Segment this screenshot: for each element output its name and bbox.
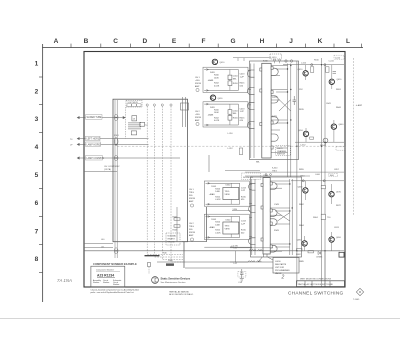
svg-text:(1X PA): (1X PA) [104, 168, 111, 171]
wire: left atten [77, 137, 148, 139]
driver sub-block 3 (lower half) [204, 181, 249, 206]
svg-text:FROM: FROM [195, 83, 201, 85]
left bus vertical wire pair inside inner box [115, 100, 117, 258]
svg-text:C-652: C-652 [300, 145, 306, 147]
dashed drop from label box [125, 107, 127, 139]
dashed box: remote switch [166, 233, 180, 245]
svg-text:C: C [113, 38, 118, 45]
armature notches upper left [260, 68, 262, 126]
resistor R490 on wire [166, 264, 174, 266]
label column left [208, 75, 220, 88]
bus connector oval row 4 [114, 248, 118, 254]
svg-text:Component Number: Component Number [96, 269, 114, 272]
svg-text:F: F [202, 38, 206, 45]
svg-text:PROGRAMMED: PROGRAMMED [275, 269, 290, 272]
long wire row 8 across [84, 250, 340, 252]
svg-text:K-340: K-340 [272, 168, 278, 170]
block to relay feed wires lower [250, 181, 290, 251]
vertical drop bus right of inner box [183, 242, 185, 268]
svg-text:L-310: L-310 [228, 133, 234, 135]
right contact 1 [271, 68, 278, 75]
transistor Q610 [303, 71, 308, 76]
svg-text:1: 1 [35, 61, 39, 68]
svg-text:C-611: C-611 [329, 61, 335, 63]
ruler: left vertical line [42, 44, 44, 302]
svg-text:Number: Number [93, 282, 100, 284]
transistor Q620 [329, 79, 334, 84]
svg-text:CH 1 VOLTS/DIV: CH 1 VOLTS/DIV [104, 166, 120, 168]
cluster 2: transistor Q650 [303, 131, 308, 136]
dark component bottom right [339, 252, 344, 257]
svg-text:SW 240: SW 240 [168, 242, 176, 244]
left contact 1 [247, 70, 254, 77]
wire between lower blocks [232, 210, 250, 212]
input label stack (bot a) [189, 189, 195, 203]
dashed external wire right of box [352, 58, 354, 215]
svg-text:J-410: J-410 [272, 57, 278, 59]
svg-text:L-610: L-610 [301, 63, 307, 65]
strip box dividers [305, 281, 330, 287]
value label noise assemblies [256, 61, 280, 233]
inner logic box [113, 99, 188, 242]
svg-text:8: 8 [35, 256, 39, 263]
svg-text:B: B [84, 38, 89, 45]
inductor coils on wire B [248, 261, 261, 262]
svg-text:6: 6 [35, 200, 39, 207]
crossover wires [278, 213, 290, 221]
labels mid [233, 76, 239, 85]
long vertical wire J column [296, 61, 298, 285]
resistor mid G3 [321, 185, 325, 188]
resistor R314 vertical [239, 148, 242, 155]
svg-text:4: 4 [35, 144, 39, 151]
svg-text:LEFT HORIZ: LEFT HORIZ [87, 139, 101, 141]
resistor connecting wire [229, 70, 231, 91]
wire: slider tube [77, 116, 125, 118]
attenuator box 1X [132, 116, 137, 121]
wire mid row b [245, 175, 310, 177]
svg-text:L-312: L-312 [228, 148, 234, 150]
assembly inner label [276, 146, 291, 156]
armature rect [262, 63, 271, 158]
svg-text:J-610: J-610 [335, 57, 341, 59]
long vertical wire K2 [324, 65, 326, 287]
svg-text:AMP: AMP [195, 119, 200, 122]
cluster 3: transistor Q660 [303, 188, 308, 193]
svg-text:1-2P: 1-2P [240, 76, 245, 78]
bus connector oval row 2 [114, 138, 118, 146]
svg-text:SIG: SIG [189, 229, 193, 231]
svg-text:SEE PARTS: SEE PARTS [275, 263, 287, 266]
left contact 3 [249, 238, 256, 245]
svg-text:LAMP COMMON: LAMP COMMON [87, 157, 105, 160]
right contact 1 [270, 183, 277, 190]
pin circles on top right wire [311, 64, 313, 66]
static sensitive logo circle [152, 277, 159, 284]
svg-text:H: H [260, 38, 265, 45]
input label stack (top b) [195, 111, 201, 122]
svg-text:NORM INV: NORM INV [243, 177, 254, 179]
svg-text:3: 3 [35, 116, 39, 123]
wire under text cluster [84, 171, 117, 173]
armature rect [263, 178, 270, 254]
svg-text:2: 2 [281, 275, 285, 281]
circled ref c [190, 204, 193, 207]
left contact 4 [247, 122, 254, 129]
wire stub row 8 b [84, 243, 113, 245]
svg-text:FROM: FROM [189, 198, 195, 200]
resistor vertical a [228, 75, 232, 80]
resistor R613 vertical [326, 67, 329, 73]
svg-text:AMP: AMP [189, 200, 194, 203]
right contact 3 [271, 117, 278, 124]
label J-610 dashed [334, 55, 344, 59]
svg-text:E: E [172, 38, 177, 45]
svg-text:2: 2 [35, 89, 39, 96]
row tick marks [39, 77, 43, 273]
input label stack (bot b) [189, 223, 195, 237]
right contact 3 [270, 219, 277, 226]
svg-text:L: L [346, 38, 350, 45]
U-490 parts list box [273, 258, 299, 274]
svg-text:+LAMP: +LAMP [356, 104, 363, 107]
vertical wire joining R245/R246 [176, 207, 178, 242]
svg-text:T-1065: T-1065 [353, 299, 360, 301]
wire B left extension [230, 261, 248, 263]
wire mid row c [245, 171, 344, 173]
vertical resistor R668 [321, 214, 325, 220]
svg-text:COMPONENT NUMBER EXAMPLE: COMPONENT NUMBER EXAMPLE [93, 262, 137, 266]
svg-text:TRIG: TRIG [225, 226, 230, 228]
svg-text:Static Sensitive Devices: Static Sensitive Devices [161, 277, 191, 281]
component cluster above long wire: remote resistors [174, 218, 180, 220]
cluster3 wires [305, 181, 331, 204]
svg-text:SIG: SIG [189, 195, 193, 197]
svg-text:D: D [142, 38, 147, 45]
cluster2 wires [306, 120, 334, 146]
bottom right partial board strip [297, 281, 345, 287]
vertical link 235 [235, 251, 237, 262]
wire row mid3 [291, 180, 344, 182]
svg-text:PARTIAL A5 VERT MODE SWITCH BD: PARTIAL A5 VERT MODE SWITCH BD [298, 283, 334, 286]
right contact 4 [270, 245, 277, 252]
component number example box [91, 266, 125, 287]
svg-text:J: J [289, 38, 293, 45]
circled ref a [196, 88, 199, 91]
vertical wire right [237, 70, 239, 91]
bus connector oval row 3 [114, 155, 118, 160]
J-410 connector label [270, 54, 282, 59]
transistor Q670 [329, 192, 334, 197]
row numbers 1-8 [35, 61, 39, 264]
ruler: top horizontal line [42, 47, 363, 49]
svg-text:K: K [318, 38, 323, 45]
svg-text:TRIG: TRIG [189, 192, 194, 194]
bus connector oval at slider tube wire [114, 114, 118, 120]
small resistor bottom left [148, 263, 151, 267]
svg-text:AMP: AMP [189, 234, 194, 237]
decoupling dashed box [238, 272, 246, 278]
svg-text:TRIG: TRIG [225, 191, 230, 193]
svg-text:CR686: CR686 [316, 257, 323, 259]
group1 wires [306, 65, 332, 89]
dashed label right [336, 147, 345, 150]
inner bottom wire with arrow [204, 90, 238, 92]
mid horizontal dashed interconnect [117, 145, 344, 147]
connector bus mid column [183, 97, 186, 127]
top right feed wire [283, 64, 344, 66]
svg-text:U-490: U-490 [275, 261, 281, 263]
resistor R684 [308, 251, 314, 253]
value label noise right column [299, 89, 342, 263]
armature notches lower right [270, 182, 272, 248]
cluster4 wires [296, 232, 344, 287]
inner top wire with arrow [204, 69, 238, 71]
coil wire b [254, 179, 256, 255]
svg-text:U-470: U-470 [277, 148, 283, 150]
cap C613 [333, 72, 336, 74]
wire mid row a [225, 170, 260, 172]
label box cells [127, 104, 141, 107]
circled ref b [196, 122, 199, 125]
svg-text:LIST FOR: LIST FOR [275, 267, 285, 269]
svg-text:prefix—see end of Replaceable: prefix—see end of Replaceable Electrical… [91, 291, 135, 294]
right contact 2 [271, 96, 278, 103]
inductor coils on long wire [249, 250, 262, 251]
armature notches upper right [271, 67, 273, 150]
svg-text:7A 1NA: 7A 1NA [57, 278, 72, 283]
svg-text:+SIG: +SIG [195, 114, 200, 116]
svg-text:INVERT: INVERT [168, 239, 176, 241]
svg-text:7: 7 [35, 229, 39, 236]
resistor R611 vertical [310, 67, 313, 73]
cap C40 [240, 269, 244, 278]
trimmer cap [140, 122, 145, 126]
svg-text:+SIG: +SIG [195, 80, 200, 82]
labels right [240, 74, 246, 88]
svg-text:See Maintenance Section: See Maintenance Section [161, 281, 187, 284]
svg-text:140K: 140K [214, 77, 219, 79]
assembly outline [250, 61, 299, 160]
label: SLIDER TUBE [86, 115, 103, 120]
label: LAMP HORIZ [86, 142, 101, 146]
resistor R246 [174, 225, 180, 227]
crossover wires [279, 100, 291, 112]
IC box U340 inside block 4 [223, 222, 239, 234]
dashed sense verticals from switch [147, 106, 183, 262]
column tick marks [71, 44, 362, 48]
second supply wire right half [230, 247, 273, 249]
svg-text:A: A [54, 38, 59, 45]
J-410 pins [274, 59, 276, 61]
output bus pair [287, 64, 289, 178]
assembly outline [251, 177, 302, 257]
svg-text:5: 5 [35, 172, 39, 179]
output bus pair [289, 179, 291, 255]
transistor Q640 [331, 124, 336, 129]
transistor Q430 [210, 95, 215, 100]
svg-text:4.02K: 4.02K [214, 85, 220, 87]
pins on wire G3 [302, 180, 304, 182]
wire: lamp horiz [77, 143, 148, 145]
pin circle j2 [290, 60, 292, 62]
svg-text:+BIAS: +BIAS [208, 79, 214, 82]
emitter follower partial [323, 138, 328, 143]
sub-block outline [203, 67, 248, 92]
main schematic outline box [84, 52, 345, 288]
vertical wire below sub-blocks [208, 155, 210, 172]
block to relay feed wires upper [248, 66, 288, 153]
dashes below resistor [148, 267, 150, 274]
svg-text:AMP: AMP [195, 85, 200, 88]
transistor Q690 [329, 237, 334, 242]
inner box bottom-right extension corner [182, 207, 206, 242]
left contact 2 [247, 87, 254, 94]
svg-text:FROM: FROM [195, 117, 201, 119]
svg-text:VIEW: VIEW [225, 194, 230, 196]
column letters A-L [54, 38, 350, 45]
pin circle j1 [285, 60, 287, 62]
svg-text:PARTIAL A5 MAIN BD: PARTIAL A5 MAIN BD [169, 290, 189, 293]
svg-text:VERT MODE SW CONNECTIONS: VERT MODE SW CONNECTIONS [300, 279, 332, 281]
wire row under cluster2 [295, 141, 344, 143]
wire to U490 a [157, 261, 273, 263]
dashed label box: switching control [126, 100, 142, 107]
input label stack ch1 col (top a) [195, 77, 201, 88]
svg-text:Number: Number [103, 282, 110, 284]
small pins lower assembly top [265, 174, 267, 176]
svg-text:NORMAL: NORMAL [168, 235, 177, 238]
armature notches lower left [261, 184, 263, 242]
lower assembly drop wires [258, 254, 273, 262]
svg-text:ALSO SHOWN ON DIAG 1: ALSO SHOWN ON DIAG 1 [169, 293, 194, 296]
resistor R682 [297, 249, 303, 251]
svg-text:G: G [230, 38, 235, 45]
right contact 4 [271, 134, 278, 141]
wire: lamp common [77, 157, 180, 159]
IC box U330 inside block 3 [223, 188, 239, 200]
label: LEFT ATTEN [86, 136, 101, 140]
driver sub-block 2 [203, 102, 248, 127]
left contact 3 [247, 102, 254, 109]
wire stub row 8 c [84, 247, 113, 249]
long vertical wire K column [321, 58, 323, 287]
switch contact stack [128, 123, 141, 129]
cap C470 between buses [293, 96, 297, 105]
resistor vertical b [228, 81, 232, 86]
driver sub-block 4 [204, 214, 249, 239]
svg-text:CHANNEL SWITCHING: CHANNEL SWITCHING [288, 290, 344, 295]
label: LAMP COMMON [86, 156, 103, 160]
svg-text:LAMP HORIZ: LAMP HORIZ [87, 143, 102, 146]
heavy shield bar [145, 255, 160, 257]
dashed vertical top pin circles [146, 104, 172, 106]
svg-text:FROM: FROM [189, 232, 195, 234]
ground symbol [240, 279, 244, 282]
diode CR686 [318, 252, 321, 255]
coil wire a [251, 179, 253, 255]
svg-text:VIEW: VIEW [225, 229, 230, 231]
coil wire b [253, 64, 255, 159]
resistor block lower [131, 131, 136, 135]
right contact 2 [270, 210, 277, 217]
svg-text:SWITCH: SWITCH [277, 154, 285, 156]
example box footnote [91, 289, 140, 295]
svg-text:A23 R1234: A23 R1234 [97, 274, 114, 278]
top feed wire [233, 58, 271, 61]
left contact 2 [249, 206, 256, 213]
connector box on mid bus [181, 103, 189, 110]
transistor Q410 top [212, 59, 217, 64]
svg-text:TRIG: TRIG [189, 226, 194, 228]
left contact 1 [249, 183, 256, 190]
sheet diamond [356, 288, 363, 295]
circled ref d [190, 238, 193, 241]
lower assembly dashed label [242, 173, 261, 180]
svg-text:Number: Number [113, 284, 120, 286]
wire to U490 b [185, 267, 273, 269]
resistor R652 [310, 137, 314, 139]
wire below block 4 [204, 246, 252, 248]
scan page bottom edge line [0, 318, 400, 320]
cluster 4: transistor Q680 [302, 241, 307, 246]
coil wire a [250, 64, 252, 159]
svg-text:SLIDER TUBE: SLIDER TUBE [87, 117, 102, 119]
